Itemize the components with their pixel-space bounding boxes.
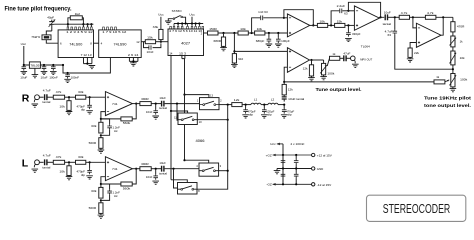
wire trimmer to crystal: [46, 31, 52, 35]
node lpf1: [245, 104, 247, 106]
wire jack to cap R: [39, 96, 43, 98]
node A4 fb node: [283, 81, 285, 83]
svg-text:1 2 3 4 5 9 12: 1 2 3 4 5 9 12: [66, 30, 93, 34]
resistor 680R: [223, 33, 225, 37]
capacitor 1200pF lpf2: [263, 105, 265, 108]
wire 10nF left tap: [144, 41, 146, 43]
ground 680R: [220, 48, 227, 51]
wire A1 out: [310, 24, 318, 26]
ground 680pF: [266, 44, 273, 47]
svg-text:33k: 33k: [78, 90, 84, 94]
svg-text:10: 10: [199, 120, 202, 124]
svg-text:10uF: 10uF: [159, 161, 166, 165]
node control A mid: [183, 159, 185, 161]
svg-text:-GZ: -GZ: [266, 183, 272, 187]
op U4 4027 box: [168, 29, 204, 56]
svg-text:ST/MO: ST/MO: [172, 9, 183, 13]
resistor 150R: [208, 31, 219, 35]
svg-text:Ucc: Ucc: [158, 13, 164, 17]
svg-text:560R: 560R: [89, 206, 97, 210]
svg-text:dip: dip: [81, 173, 86, 177]
wire 33k to opamp L: [86, 161, 106, 163]
regulator U3 78L05 box: [29, 62, 40, 68]
resistor 22k: [408, 48, 412, 57]
node L split: [172, 168, 174, 170]
resistor 390R R: [140, 102, 151, 106]
svg-text:47k: 47k: [56, 90, 62, 94]
svg-text:14: 14: [169, 51, 172, 55]
svg-text:10k: 10k: [59, 104, 65, 108]
trimmer 1k: [451, 36, 455, 47]
wire A1 minus: [284, 17, 288, 19]
svg-text:4.7uF: 4.7uF: [43, 89, 51, 93]
switch SW2 4066: [178, 113, 197, 125]
capacitor 10uF tantal out: [385, 14, 387, 20]
svg-text:-12 al 15V: -12 al 15V: [317, 183, 332, 187]
A3 plus mark: [418, 41, 420, 43]
wire control A to SW1: [185, 95, 209, 98]
node bus top: [227, 104, 229, 106]
capacitor 10nF R: [155, 104, 157, 109]
node control A top: [183, 94, 185, 96]
connector L jack: [35, 160, 40, 165]
capacitor 100pF: [277, 33, 279, 37]
ground 100pF: [275, 44, 282, 47]
svg-text:10nF: 10nF: [147, 50, 154, 54]
ground 100k mpx: [323, 75, 325, 77]
resistor 10k L: [68, 162, 70, 166]
ground 100k trim: [452, 87, 454, 89]
svg-text:2 6 14: 2 6 14: [128, 53, 139, 57]
svg-text:33k: 33k: [91, 124, 97, 128]
node L fb: [100, 183, 102, 185]
svg-text:10uF tantal: 10uF tantal: [288, 97, 304, 101]
ground R jack: [32, 104, 39, 107]
svg-text:100k: 100k: [460, 77, 468, 81]
resistor 33k fb L: [100, 184, 102, 187]
wire 47uF to jack: [347, 57, 351, 59]
node lpf2: [263, 104, 265, 106]
ground 910: [233, 63, 235, 64]
capacitor 100nF p1: [282, 155, 284, 159]
svg-text:33k: 33k: [78, 155, 84, 159]
svg-text:dip: dip: [81, 108, 86, 112]
resistor 390R L: [140, 167, 151, 171]
svg-text:10nF: 10nF: [146, 110, 153, 114]
terminal GND: [312, 167, 315, 170]
A1 plus mark: [289, 32, 291, 34]
node U2 gnd join: [132, 60, 134, 62]
resistor 470R: [451, 22, 455, 32]
wire U2 bottom pins: [129, 58, 138, 62]
svg-text:Tune output level.: Tune output level.: [316, 87, 362, 92]
svg-text:10uF: 10uF: [159, 96, 166, 100]
wire U1 pin8 to U2 pin4: [94, 42, 99, 44]
svg-text:1k: 1k: [332, 52, 335, 56]
wire Ucc down: [23, 46, 25, 65]
resistor 12k mpx: [232, 103, 242, 107]
wire A4 minus: [284, 67, 287, 82]
wire SW4 out: [197, 188, 228, 191]
resistor 10k R: [68, 97, 70, 101]
wire 741 R out: [132, 103, 140, 105]
node U1 gnd join: [86, 63, 88, 65]
wire 1k2 left lead: [68, 18, 70, 24]
svg-text:680R: 680R: [214, 39, 222, 43]
node L in2: [89, 161, 91, 163]
svg-text:4 7 9 12 5 6 10 11 16: 4 7 9 12 5 6 10 11 16: [169, 29, 203, 33]
node +GZ dots: [282, 154, 284, 156]
capacitor 470pF L: [89, 162, 91, 168]
wire 560k R leads: [101, 104, 136, 119]
svg-text:10k: 10k: [319, 19, 325, 23]
wire 47k to 33k R: [65, 96, 76, 98]
svg-text:741: 741: [112, 167, 118, 171]
ground 10k L: [68, 176, 70, 177]
resistor 12k fb: [283, 82, 285, 85]
svg-text:560k: 560k: [123, 186, 131, 190]
svg-text:tantal: tantal: [159, 106, 167, 110]
ground 10nF R: [152, 116, 159, 119]
wire A3 minus drop: [413, 17, 417, 28]
capacitor C1 40pF trimmer: [49, 20, 54, 31]
switch SW3 4066: [199, 163, 219, 176]
wire crystal to pin 6: [46, 40, 58, 44]
svg-text:+GZ: +GZ: [266, 153, 272, 157]
node A1 out: [312, 24, 314, 26]
ground 560R R: [100, 148, 102, 150]
svg-text:4,7k: 4,7k: [427, 11, 434, 15]
node L lpf: [155, 168, 157, 170]
ground MPX OUT: [352, 64, 359, 67]
ground 330pF: [345, 38, 352, 41]
wire 1k to 47uF: [340, 57, 344, 59]
wire 15k b to A2: [345, 24, 355, 26]
resistor 47k R: [53, 95, 64, 99]
node bus 3: [227, 170, 229, 172]
svg-text:10uF: 10uF: [41, 75, 48, 79]
capacitor 4.7uF: [394, 17, 396, 29]
ground L jack: [32, 169, 39, 172]
svg-text:76kHz: 76kHz: [31, 35, 40, 39]
capacitor 470pF lpf3: [283, 105, 285, 108]
svg-text:13: 13: [210, 94, 213, 98]
resistor 1k inject: [434, 80, 445, 84]
svg-text:78L05: 78L05: [30, 63, 40, 67]
node A1 minus node: [283, 17, 285, 19]
svg-text:12k: 12k: [288, 87, 294, 91]
resistor 15k b: [335, 23, 345, 27]
wire SW2 out: [197, 119, 227, 121]
stereocoder box: [367, 195, 466, 221]
wire R to SW1: [165, 103, 200, 105]
svg-text:10uF: 10uF: [20, 75, 27, 79]
capacitor 100nF rail c: [51, 65, 56, 71]
ground 10nF L: [152, 181, 159, 184]
wire 1k to 10k trim: [452, 47, 454, 51]
resistor 560k R: [121, 117, 132, 121]
svg-text:40pF: 40pF: [47, 16, 54, 20]
svg-text:10nF: 10nF: [146, 175, 153, 179]
trimmer 10k: [451, 51, 455, 65]
wire L1 to L2: [261, 104, 268, 106]
capacitor 100nF U2 supply: [65, 73, 70, 79]
svg-text:4027: 4027: [181, 41, 190, 45]
capacitor 1nF sallen: [252, 18, 261, 33]
wire control B to SW2: [171, 111, 188, 113]
node pilot tap2: [233, 50, 235, 52]
svg-text:33k: 33k: [153, 25, 159, 29]
A3 minus mark: [418, 27, 420, 29]
wire 470R to 1k trim: [452, 32, 454, 36]
svg-text:MPX OUT: MPX OUT: [360, 57, 372, 61]
wire R to SW2: [177, 104, 178, 121]
node control B: [170, 110, 172, 112]
wire A2 out: [379, 16, 384, 19]
node R lpf: [155, 103, 157, 105]
wire 741 L minus: [101, 177, 106, 184]
wire -GZ rail: [273, 183, 312, 185]
node R fb2: [100, 134, 102, 136]
svg-text:dip: dip: [268, 113, 273, 117]
node 741 R out: [135, 103, 137, 105]
connector R jack: [35, 95, 40, 100]
connector MPX OUT: [351, 56, 356, 61]
wire +GZ rail: [273, 154, 312, 156]
resistor 560k L: [121, 182, 132, 186]
pin stubs U1 top: [67, 27, 69, 30]
node 2u2 tap: [330, 24, 332, 26]
wire 10k trim bottom: [452, 65, 454, 74]
wire 4027 top rail: [174, 23, 203, 25]
svg-text:15 3: 15 3: [179, 51, 187, 55]
node A3 minus node: [412, 16, 414, 18]
741 R plus mark: [107, 96, 109, 98]
trimmer 100k: [451, 74, 455, 87]
ground 470pF lpf1: [242, 115, 249, 118]
wire 741 L out: [132, 168, 140, 170]
svg-text:12: 12: [136, 40, 140, 44]
capacitor 10nF loop: [144, 42, 161, 48]
wire control B to SW4: [171, 180, 187, 183]
op-amp 741 L: [105, 157, 132, 181]
node A3 out top: [442, 16, 444, 18]
ground 10k R: [68, 110, 70, 111]
svg-text:330pF: 330pF: [352, 32, 361, 36]
741 L plus mark: [107, 161, 109, 163]
ground 12k out: [311, 76, 313, 78]
resistor 10k a: [238, 31, 248, 35]
svg-text:Ucc: Ucc: [189, 13, 195, 17]
ground rail a: [21, 71, 28, 74]
capacitor 10uF tantal L2: [162, 166, 164, 172]
wire inject wiper: [445, 80, 449, 82]
wire 4027 pin2 out: [204, 32, 208, 34]
node 741 L out: [135, 168, 137, 170]
wire pilot inject run: [284, 81, 434, 83]
wire Ucc arrow: [277, 143, 283, 145]
ground U2: [130, 63, 137, 66]
svg-text:74LS00: 74LS00: [69, 42, 82, 46]
wire 12k to L1: [242, 104, 251, 106]
ground 22k: [409, 57, 411, 58]
node filter node2: [268, 32, 270, 34]
ground GND rail: [276, 169, 278, 171]
svg-text:1k2: 1k2: [75, 12, 81, 16]
svg-text:1 7 9 10 5 12: 1 7 9 10 5 12: [102, 30, 127, 34]
wire L2 out: [278, 104, 284, 106]
svg-text:560k: 560k: [123, 121, 131, 125]
svg-text:470R: 470R: [457, 25, 465, 29]
wire A4 out: [310, 59, 324, 61]
svg-text:10k: 10k: [59, 169, 65, 173]
wire L to SW4: [174, 169, 178, 188]
svg-text:4066: 4066: [196, 139, 205, 143]
node sallen C1 tap: [251, 32, 253, 34]
wire pilot tap down: [233, 33, 235, 51]
svg-text:tol: tol: [114, 129, 118, 133]
svg-text:47k: 47k: [56, 155, 62, 159]
capacitor 10nF L: [155, 169, 157, 174]
node bus 2: [227, 119, 229, 121]
wire control B down: [170, 111, 172, 180]
resistor R1 1k2: [70, 16, 82, 20]
capacitor 330pF: [347, 25, 349, 31]
svg-text:390R: 390R: [141, 162, 149, 166]
svg-text:33k: 33k: [91, 189, 97, 193]
inductor L1: [251, 103, 261, 104]
ground U3 78L05: [34, 68, 36, 74]
wire bus: [227, 105, 229, 189]
capacitor 10uF tantal fb: [283, 95, 285, 97]
wire 4027 pin14 down: [170, 56, 172, 112]
node A2 plus node: [347, 24, 349, 26]
U2 pin stubs top: [103, 27, 105, 30]
node rail dots: [23, 64, 25, 66]
capacitor 470pF R: [89, 97, 91, 103]
wire GND rail: [277, 168, 312, 170]
svg-text:tantal: tantal: [42, 165, 50, 169]
svg-text:560R: 560R: [89, 141, 97, 145]
svg-text:10uF: 10uF: [384, 10, 391, 14]
resistor 10k c: [317, 23, 327, 27]
node feedback junctions: [67, 23, 69, 25]
node 4027 top rail dots: [177, 22, 179, 24]
ground 1200pF lpf2: [261, 115, 268, 118]
svg-text:4.7uF: 4.7uF: [43, 154, 51, 158]
node filter node3: [277, 32, 279, 34]
svg-text:1k: 1k: [436, 75, 439, 79]
node R split: [176, 103, 178, 105]
switch ST/MO: [165, 21, 172, 24]
ground 470pF R: [86, 111, 93, 114]
svg-text:Tune 19KHz pilot: Tune 19KHz pilot: [424, 96, 472, 101]
wire U2 pin12 to 15k: [141, 41, 145, 43]
wire 47k to 33k L: [65, 161, 76, 163]
wire SW3 out: [219, 170, 228, 172]
resistor 33k R: [76, 95, 86, 99]
capacitor 10uF rail a: [22, 65, 27, 71]
node 680R tap: [222, 32, 224, 34]
node clock junction: [160, 41, 162, 43]
svg-text:dip: dip: [249, 113, 254, 117]
resistor 33k pullup: [159, 29, 163, 39]
svg-text:390R: 390R: [141, 97, 149, 101]
wire pin stubs to feedback: [68, 24, 92, 27]
svg-text:L1: L1: [254, 97, 258, 101]
svg-text:tone output level.: tone output level.: [424, 103, 471, 108]
svg-text:10k: 10k: [240, 27, 246, 31]
svg-text:7 12 13: 7 12 13: [81, 53, 93, 57]
capacitor 1.2nF L: [101, 184, 110, 189]
op-amp 741 R: [105, 92, 132, 116]
ground 100nF U2 supply: [64, 79, 71, 82]
wire Ucc pullup: [160, 17, 162, 30]
wire 390R to cap R: [151, 103, 161, 105]
svg-text:100nF: 100nF: [71, 76, 80, 80]
wire Ucc 4027 drop: [191, 17, 193, 24]
A4 minus mark: [289, 66, 291, 68]
resistor 10k b: [255, 31, 265, 35]
wire 10k a to 10k b: [248, 32, 254, 34]
A1 minus mark: [289, 17, 291, 19]
svg-text:680pF: 680pF: [256, 39, 265, 43]
resistor 33k L: [76, 160, 86, 164]
wire SW1 out: [219, 104, 232, 106]
resistor 12k out: [311, 60, 313, 65]
svg-text:2.2uF: 2.2uF: [337, 4, 346, 8]
node R fb: [100, 118, 102, 120]
svg-text:63: 63: [344, 12, 348, 16]
node A4 out: [310, 59, 312, 61]
wire control A down: [184, 95, 186, 161]
wire chain top: [452, 17, 454, 21]
A4 plus mark: [289, 50, 291, 52]
ground 560R L: [100, 213, 102, 215]
node pilot tap: [233, 32, 235, 34]
wire 390R to cap L: [151, 168, 161, 170]
svg-text:L2: L2: [271, 97, 275, 101]
wire 4027 pin15-3 join: [182, 56, 185, 95]
wire U2 Vcc pin: [63, 58, 110, 74]
ground 470pF L: [86, 176, 93, 179]
inductor L2: [268, 103, 278, 104]
capacitor 4.7uF tantal L: [45, 159, 47, 165]
node GND dots: [282, 167, 284, 169]
capacitor 10uF rail b: [42, 65, 47, 71]
capacitor 680pF: [268, 33, 270, 37]
capacitor 470pF lpf1: [245, 105, 247, 108]
wire A2 feedback top: [348, 2, 380, 17]
ground U1: [89, 66, 96, 69]
node L in1: [68, 161, 70, 163]
svg-text:15k: 15k: [337, 19, 343, 23]
wire oscillator feedback: [54, 23, 93, 25]
resistor 33k fb R: [100, 119, 102, 122]
svg-text:1k: 1k: [460, 40, 463, 44]
wire 10k b to opamp: [265, 32, 288, 34]
svg-text:4 x 100nF: 4 x 100nF: [290, 142, 304, 146]
wire cap to 47k R: [47, 96, 53, 98]
wire 33k bottom: [160, 40, 162, 42]
wire jack to cap L: [39, 161, 43, 163]
node pilot div: [394, 16, 396, 18]
terminal +12V: [312, 153, 315, 156]
svg-text:63: 63: [388, 33, 392, 37]
wire U1 bottom pins: [84, 58, 92, 64]
A2 minus mark: [356, 10, 358, 12]
741 L minus mark: [107, 176, 109, 178]
